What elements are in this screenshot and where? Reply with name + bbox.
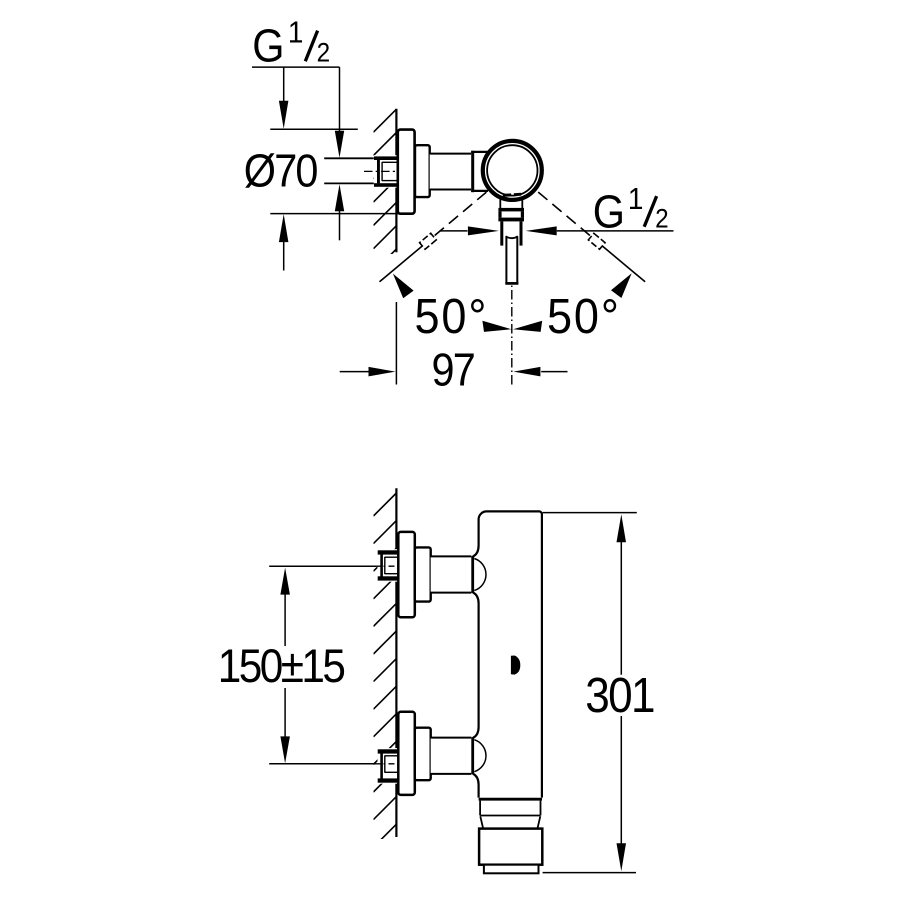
upper inlet pipe (bottom view) xyxy=(431,557,472,592)
outlet ring side borders xyxy=(498,211,501,217)
outlet lower black band xyxy=(498,218,524,222)
outlet upper black band xyxy=(498,208,524,212)
handle centerline dash-dot xyxy=(511,286,513,385)
150 dim line lower arrow xyxy=(284,688,286,737)
wall line (bottom view) xyxy=(395,488,397,837)
inlet pipe (top view) xyxy=(430,154,472,189)
301 dim line lower segment with arrow xyxy=(620,716,622,845)
lower flange collar ring xyxy=(415,728,431,781)
svg-text:97: 97 xyxy=(432,345,475,397)
handle lever shaft xyxy=(506,236,518,238)
left swing knob dashed rect xyxy=(420,233,437,249)
right 50deg arc arrow xyxy=(611,273,632,298)
svg-text:G: G xyxy=(252,20,282,72)
upper flange collar ring xyxy=(415,547,431,601)
svg-text:2: 2 xyxy=(655,204,667,233)
97 dim left arrow and line xyxy=(340,371,369,373)
upper pipe ball arc xyxy=(474,559,486,591)
oe70 dim line upper segment with arrow xyxy=(283,67,285,103)
svg-text:50°: 50° xyxy=(415,288,489,343)
supply centerline dash-dot (top view) xyxy=(364,170,397,172)
right swing lever solid end xyxy=(602,246,645,282)
left swing lever dashed line xyxy=(433,192,486,237)
valve body inner circle xyxy=(487,145,537,195)
301 dim line with top arrow xyxy=(617,514,627,542)
left 50deg arc arrow xyxy=(393,274,414,299)
body lower ring section xyxy=(479,801,481,816)
pipe-to-valve connector (top view) xyxy=(471,152,488,191)
svg-text:301: 301 xyxy=(585,668,654,723)
G12 right dim line with arrows at outlet xyxy=(440,230,468,232)
body taper to cap xyxy=(480,816,483,828)
upper flange / escutcheon (bottom view) xyxy=(398,532,415,617)
lower pipe end shoulder xyxy=(471,737,474,774)
bottom outlet plate xyxy=(484,865,539,874)
wall flange / escutcheon (top view) xyxy=(398,130,415,214)
right swing lever dashed line xyxy=(538,192,591,237)
upper wall union nut (bottom view) xyxy=(378,549,398,582)
svg-text:1: 1 xyxy=(288,15,302,50)
wall hatching (top view) xyxy=(373,109,396,272)
flange bottom extension line xyxy=(270,213,400,215)
150 dim line upper arrow xyxy=(280,568,290,595)
lower supply centerline and 150 extension line xyxy=(269,763,376,765)
oe70 dim line lower segment with arrow xyxy=(279,214,289,242)
wall hatching (bottom view) xyxy=(373,493,396,847)
handle hub tabs at circle bottom xyxy=(503,193,511,197)
flange collar ring (top view) xyxy=(415,145,430,197)
lower flange / escutcheon (bottom view) xyxy=(398,712,415,795)
50deg center bowtie arrows xyxy=(482,321,511,332)
svg-text:Ø70: Ø70 xyxy=(244,145,317,197)
301 top extension line xyxy=(543,512,637,514)
svg-text:G: G xyxy=(593,187,623,239)
outlet cylinder sides xyxy=(500,221,503,245)
lower inlet pipe (bottom view) xyxy=(431,738,472,773)
wall line (top view) xyxy=(395,109,397,253)
svg-text:2: 2 xyxy=(317,38,329,67)
label G 1/2 top left xyxy=(252,15,329,72)
upper supply centerline and 150 extension line xyxy=(269,565,376,567)
mixer body outline (bottom view) xyxy=(473,511,542,797)
body lower thick separation line xyxy=(479,798,542,801)
valve body outer circle xyxy=(483,141,542,200)
label G 1/2 right xyxy=(593,181,668,238)
G12 vertical dim line lower with arrow xyxy=(335,184,344,211)
G12 vertical dim line upper with arrow xyxy=(339,67,341,131)
supply pipe lines behind wall / oe70 extension lines xyxy=(324,157,375,159)
left swing lever solid end xyxy=(380,246,423,282)
flange top extension line xyxy=(270,128,358,130)
301 bottom extension line xyxy=(543,872,636,874)
svg-text:1: 1 xyxy=(628,181,642,216)
body pictogram icon xyxy=(511,656,520,675)
bottom cap xyxy=(479,829,542,865)
lower pipe ball arc xyxy=(474,740,486,772)
wall union nut (top view) xyxy=(374,155,398,188)
97 left extension line xyxy=(395,302,397,385)
upper pipe end shoulder xyxy=(471,556,474,593)
lower wall union nut (bottom view) xyxy=(378,748,398,784)
right swing knob dashed rect xyxy=(588,233,605,249)
G12 top dim line under text xyxy=(252,66,340,68)
svg-text:50°: 50° xyxy=(547,288,621,343)
97 dim right arrow and line xyxy=(513,367,540,377)
outlet neck below valve xyxy=(499,200,501,209)
svg-text:150±15: 150±15 xyxy=(218,641,344,693)
